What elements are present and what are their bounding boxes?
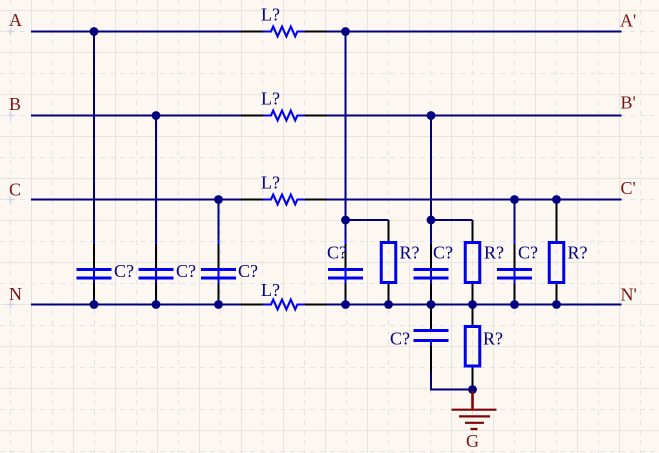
svg-text:C?: C? xyxy=(518,242,538,262)
svg-text:C: C xyxy=(9,180,21,200)
svg-text:B: B xyxy=(9,94,21,114)
svg-text:L?: L? xyxy=(261,5,280,25)
svg-text:C?: C? xyxy=(433,242,453,262)
svg-text:N': N' xyxy=(621,285,637,305)
svg-text:C?: C? xyxy=(114,261,134,281)
svg-text:B': B' xyxy=(621,93,636,113)
svg-text:N: N xyxy=(9,284,22,304)
svg-text:C?: C? xyxy=(176,261,196,281)
svg-text:R?: R? xyxy=(483,328,503,348)
svg-text:C': C' xyxy=(621,178,636,198)
svg-text:C?: C? xyxy=(390,328,410,348)
svg-text:A': A' xyxy=(620,10,636,30)
svg-text:R?: R? xyxy=(400,242,420,262)
svg-text:L?: L? xyxy=(261,173,280,193)
svg-text:R?: R? xyxy=(484,242,504,262)
svg-text:A: A xyxy=(9,10,22,30)
svg-text:G: G xyxy=(466,431,479,451)
svg-text:R?: R? xyxy=(568,242,588,262)
svg-text:C?: C? xyxy=(238,261,258,281)
svg-text:L?: L? xyxy=(261,280,280,300)
svg-text:C?: C? xyxy=(327,242,347,262)
svg-text:L?: L? xyxy=(261,89,280,109)
